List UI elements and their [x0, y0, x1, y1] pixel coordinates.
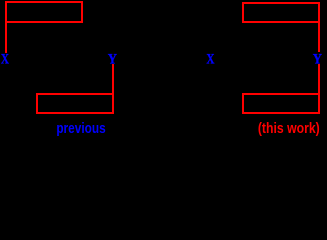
highlight box right-bottom — [243, 94, 319, 113]
bond wire from Y down — [112, 64, 114, 95]
highlight box right-top — [243, 3, 319, 22]
bond wire to X — [5, 22, 7, 53]
svg-text:previous: previous — [56, 120, 105, 137]
highlight box left-bottom — [37, 94, 113, 113]
svg-text:X: X — [206, 50, 214, 67]
svg-text:Y: Y — [313, 52, 322, 68]
highlight box left-top — [6, 2, 82, 22]
svg-text:(this work): (this work) — [258, 120, 320, 136]
svg-text:X: X — [1, 50, 9, 67]
bond wire Y to bottom box — [318, 64, 320, 95]
bond wire box to Y — [318, 22, 320, 52]
